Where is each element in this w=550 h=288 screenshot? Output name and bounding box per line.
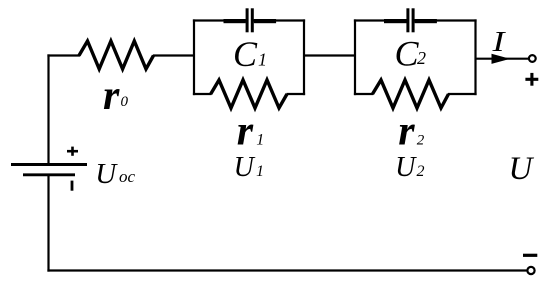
svg-text:I: I [491,26,506,58]
plus sign output [525,73,538,86]
svg-text:U: U [395,152,417,183]
wire top left segment [47,54,80,56]
battery minus sign [71,181,74,191]
wire block1 top right [254,19,306,21]
wire block1 bottom left [193,93,212,95]
wire block2 bottom right [448,93,477,95]
wire block2 top left [354,19,407,21]
node block1 left edge [193,19,195,95]
wire output [476,58,529,60]
node block1 right edge [303,19,305,95]
svg-text:2: 2 [417,48,426,68]
resistor r2 [373,80,449,108]
capacitor C1 [224,8,277,32]
svg-text:0: 0 [121,94,129,110]
capacitor C2 [384,8,437,32]
svg-text:2: 2 [417,163,425,180]
terminal positive [529,55,536,62]
svg-text:2: 2 [417,132,425,148]
current arrow [492,54,511,64]
resistor r0 [79,41,154,69]
battery Uoc [11,165,87,175]
node block2 left edge [354,19,356,95]
svg-text:r: r [398,109,415,155]
svg-text:r: r [237,109,254,155]
svg-text:U: U [234,152,256,183]
minus sign output [523,254,537,257]
wire left vertical lower [47,175,49,272]
node block2 right edge [474,19,476,95]
wire block2 top right [414,19,476,21]
wire left vertical upper [47,54,49,164]
terminal negative [527,267,534,274]
svg-text:U: U [95,158,118,190]
svg-text:C: C [395,33,420,73]
battery plus sign [67,147,78,156]
wire r0 to block1 [153,54,195,56]
wire block1 to block2 [303,54,356,56]
wire bottom [47,269,527,271]
svg-text:1: 1 [256,163,264,180]
svg-text:U: U [509,151,535,187]
wire block1 top left [193,19,246,21]
svg-text:1: 1 [258,49,267,69]
resistor r1 [211,80,287,108]
wire block1 bottom right [287,93,306,95]
svg-text:r: r [103,73,120,119]
svg-text:1: 1 [256,131,264,148]
svg-text:C: C [233,34,258,74]
svg-text:oc: oc [119,167,136,186]
wire block2 bottom left [354,93,373,95]
